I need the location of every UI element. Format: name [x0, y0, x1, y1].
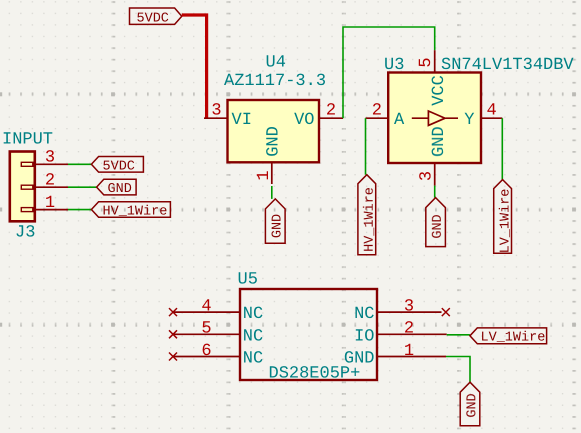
svg-text:1: 1	[45, 194, 55, 213]
wire J3 pin2 to GND label	[68, 186, 97, 188]
svg-text:INPUT: INPUT	[2, 131, 53, 150]
global label 5VDC (at J3)	[91, 157, 143, 175]
svg-text:1: 1	[255, 170, 274, 180]
regulator U4 body	[228, 100, 320, 162]
svg-text:GND: GND	[465, 393, 480, 417]
svg-text:6: 6	[201, 342, 211, 361]
pin 1 (GND) of U4	[255, 126, 284, 184]
svg-text:VO: VO	[294, 111, 314, 130]
wire U4 VO to U3 VCC	[343, 27, 435, 118]
no-connect X on U5 pin 6	[169, 353, 177, 361]
svg-text:NC: NC	[243, 327, 263, 346]
wire J3 pin1 to HV_1Wire label	[68, 209, 91, 211]
svg-text:4: 4	[487, 102, 497, 121]
pin 4 (NC) of U5	[173, 297, 263, 324]
wire U5 GND pin to ground	[446, 357, 470, 383]
wire U4 pin1 to GND symbol	[271, 186, 273, 199]
svg-text:5VDC: 5VDC	[103, 159, 135, 174]
pin 1 (GND) of U5	[344, 342, 446, 369]
pin 3 of J3	[21, 149, 68, 168]
svg-text:A: A	[394, 111, 405, 130]
svg-text:GND: GND	[108, 182, 132, 197]
ground symbol under U3	[426, 198, 446, 247]
pin 3 (GND) of U3	[418, 126, 450, 185]
pin 2 (IO) of U5	[354, 320, 447, 347]
pin 5 (VCC) of U3	[417, 50, 449, 106]
global label LV_1Wire (vertical)	[494, 180, 514, 254]
no-connect X on U5 pin 3	[442, 308, 450, 316]
connector J3 body	[10, 152, 35, 222]
svg-text:5VDC: 5VDC	[137, 11, 169, 26]
global label HV_1Wire (at J3)	[91, 202, 170, 220]
pin 3 (NC) of U5	[354, 297, 441, 324]
svg-text:GND: GND	[431, 214, 446, 238]
svg-text:5: 5	[201, 320, 211, 339]
svg-text:3: 3	[45, 149, 55, 168]
global label 5VDC (top)	[130, 8, 182, 26]
svg-text:NC: NC	[243, 305, 263, 324]
svg-text:2: 2	[372, 102, 382, 121]
svg-text:1: 1	[404, 342, 414, 361]
svg-text:NC: NC	[354, 305, 374, 324]
pin 1 of J3	[21, 194, 68, 213]
global label GND (at J3)	[97, 179, 137, 197]
svg-text:VCC: VCC	[430, 75, 449, 106]
svg-text:IO: IO	[354, 327, 374, 346]
svg-text:GND: GND	[430, 126, 449, 157]
wire 5VDC thick bus from label to U4 VI	[182, 15, 207, 118]
wire U5 IO to LV_1Wire label	[447, 334, 470, 336]
svg-text:LV_1Wire: LV_1Wire	[481, 330, 546, 345]
svg-text:VI: VI	[232, 111, 252, 130]
svg-text:3: 3	[404, 297, 414, 316]
ground symbol under U4	[265, 199, 285, 243]
pin 2 (VO) of U4	[294, 102, 343, 131]
svg-text:LV_1Wire: LV_1Wire	[499, 189, 514, 254]
no-connect X on U5 pin 5	[169, 330, 177, 338]
wire J3 pin3 to 5VDC label	[68, 163, 91, 165]
pin 2 (A) of U3	[366, 102, 406, 131]
svg-text:2: 2	[45, 172, 55, 191]
ground symbol under U5	[460, 382, 480, 426]
pin 2 of J3	[21, 172, 68, 191]
svg-text:U5: U5	[238, 271, 258, 290]
svg-text:5: 5	[417, 57, 436, 67]
pin 5 (NC) of U5	[173, 320, 263, 347]
global label LV_1Wire (at U5)	[470, 328, 547, 346]
pin 6 (NC) of U5	[173, 342, 263, 369]
wire U3 A to HV_1Wire label	[365, 118, 367, 175]
wire U3 Y to LV_1Wire label	[501, 118, 503, 179]
svg-text:4: 4	[201, 297, 211, 316]
svg-text:J3: J3	[15, 223, 35, 242]
svg-text:DS28E05P+: DS28E05P+	[269, 365, 361, 384]
no-connect X on U5 pin 4	[169, 308, 177, 316]
global label HV_1Wire (vertical)	[358, 175, 378, 255]
pin 4 (Y) of U3	[464, 102, 502, 131]
svg-text:U4: U4	[266, 54, 286, 73]
buffer triangle inside U3	[412, 111, 458, 125]
buffer U3 body	[388, 73, 481, 164]
svg-text:AZ1117-3.3: AZ1117-3.3	[224, 72, 326, 91]
chip U5 body	[240, 289, 377, 380]
wire U3 GND pin to ground	[434, 186, 436, 198]
svg-text:GND: GND	[271, 214, 286, 238]
svg-text:NC: NC	[243, 350, 263, 369]
svg-text:2: 2	[404, 320, 414, 339]
svg-text:HV_1Wire: HV_1Wire	[363, 187, 378, 252]
pin 3 (VI) of U4	[204, 102, 252, 131]
svg-text:3: 3	[418, 171, 437, 181]
svg-text:HV_1Wire: HV_1Wire	[103, 205, 168, 220]
svg-text:GND: GND	[265, 126, 284, 157]
svg-text:3: 3	[211, 102, 221, 121]
svg-text:2: 2	[326, 102, 336, 121]
svg-text:Y: Y	[464, 111, 474, 130]
